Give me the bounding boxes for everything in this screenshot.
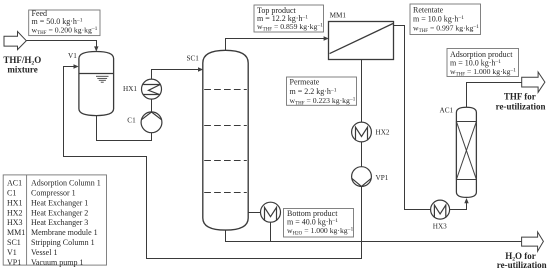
- svg-text:HX2: HX2: [376, 129, 390, 137]
- svg-text:AC1: AC1: [7, 179, 22, 188]
- svg-text:re-utilization: re-utilization: [496, 102, 546, 112]
- AC1 packing X-section: [456, 122, 476, 180]
- svg-text:Compressor 1: Compressor 1: [31, 189, 76, 198]
- heat exchanger HX3: [431, 200, 450, 219]
- vessel V1: [79, 52, 114, 116]
- arrowhead into SC1 feed: [198, 67, 203, 71]
- svg-text:mixture: mixture: [7, 64, 37, 74]
- svg-text:SC1: SC1: [7, 238, 21, 247]
- svg-text:Vessel 1: Vessel 1: [31, 248, 57, 257]
- stream data box Feed: [29, 9, 100, 36]
- wire SC1 side outlet to reboiler HX: [248, 212, 260, 214]
- wire HX3 to AC1 bottom: [450, 203, 467, 210]
- svg-text:V1: V1: [7, 248, 17, 257]
- wire MM1 right to HX3 (retentate): [394, 26, 431, 210]
- reboiler heat exchanger at SC1 bottom: [261, 202, 281, 222]
- svg-text:Stripping Column 1: Stripping Column 1: [31, 238, 95, 247]
- wire AC1 top to THF arrow: [467, 83, 522, 108]
- stripping column SC1: [203, 50, 248, 230]
- H2O block arrow: [522, 232, 544, 251]
- svg-text:SC1: SC1: [187, 54, 200, 62]
- svg-text:MM1: MM1: [330, 12, 347, 20]
- stream data box Top product: [254, 5, 324, 33]
- V1 liquid level mark: [96, 76, 109, 82]
- SC1 packing dashed lines: [204, 90, 247, 193]
- adsorption column AC1: [456, 107, 476, 197]
- feed block arrow: [4, 32, 26, 50]
- svg-text:THF for: THF for: [504, 91, 536, 101]
- membrane module MM1: [329, 22, 394, 60]
- legend box: [3, 175, 106, 267]
- wire MM1 bottom to HX2 (permeate): [361, 59, 363, 122]
- svg-text:Adsorption Column 1: Adsorption Column 1: [31, 179, 101, 188]
- vacuum pump VP1: [352, 167, 372, 187]
- wire C1 to HX1: [151, 99, 153, 112]
- svg-text:Vacuum pump 1: Vacuum pump 1: [31, 258, 83, 267]
- wire HX1 to SC1 feed inlet: [152, 70, 200, 80]
- svg-text:HX1: HX1: [123, 85, 137, 93]
- svg-text:MM1: MM1: [7, 228, 25, 237]
- svg-text:HX2: HX2: [7, 208, 23, 217]
- wire V1 bottom to C1: [97, 116, 152, 141]
- wire reboiler HX bottom down: [270, 222, 272, 241]
- svg-text:m = 10.0 kg·h–1: m = 10.0 kg·h–1: [413, 15, 464, 24]
- heat exchanger HX1: [142, 79, 162, 99]
- arrowhead into V1 top: [94, 46, 98, 51]
- wire feed arrow to V1 top: [26, 41, 96, 48]
- arrowhead into V1 left: [74, 64, 79, 68]
- THF block arrow: [522, 72, 545, 92]
- wire bottom product to H2O arrow: [226, 230, 522, 242]
- svg-text:Retentate: Retentate: [413, 6, 444, 15]
- stream data box Bottom product: [284, 209, 354, 238]
- svg-text:VP1: VP1: [7, 258, 21, 267]
- arrowhead into AC1 bottom: [464, 198, 468, 203]
- wire permeate recycle VP1 to V1 left: [64, 67, 362, 259]
- svg-text:VP1: VP1: [376, 174, 389, 182]
- svg-text:C1: C1: [7, 189, 16, 198]
- stream data box Permeate: [287, 77, 357, 106]
- svg-text:C1: C1: [127, 117, 136, 125]
- stream data box Adsorption product: [447, 49, 519, 78]
- svg-text:HX3: HX3: [433, 223, 447, 231]
- svg-text:Heat Exchanger 2: Heat Exchanger 2: [31, 208, 88, 217]
- svg-text:re-utilization: re-utilization: [497, 260, 547, 270]
- wire SC1 top to MM1: [226, 39, 325, 52]
- arrowhead into MM1 left: [324, 36, 329, 40]
- wire HX2 to VP1: [361, 142, 363, 167]
- svg-text:AC1: AC1: [440, 106, 454, 114]
- heat exchanger HX2: [352, 122, 372, 142]
- svg-text:Membrane module 1: Membrane module 1: [31, 228, 98, 237]
- svg-text:Heat Exchanger 1: Heat Exchanger 1: [31, 198, 88, 207]
- svg-text:HX3: HX3: [7, 218, 23, 227]
- svg-text:m = 2.2 kg·h–1: m = 2.2 kg·h–1: [290, 87, 337, 96]
- svg-text:HX1: HX1: [7, 198, 23, 207]
- stream data box Retentate: [410, 4, 481, 35]
- svg-text:V1: V1: [68, 52, 77, 60]
- compressor C1: [141, 112, 162, 133]
- svg-text:Permeate: Permeate: [290, 78, 320, 87]
- svg-text:Heat Exchanger 3: Heat Exchanger 3: [31, 218, 88, 227]
